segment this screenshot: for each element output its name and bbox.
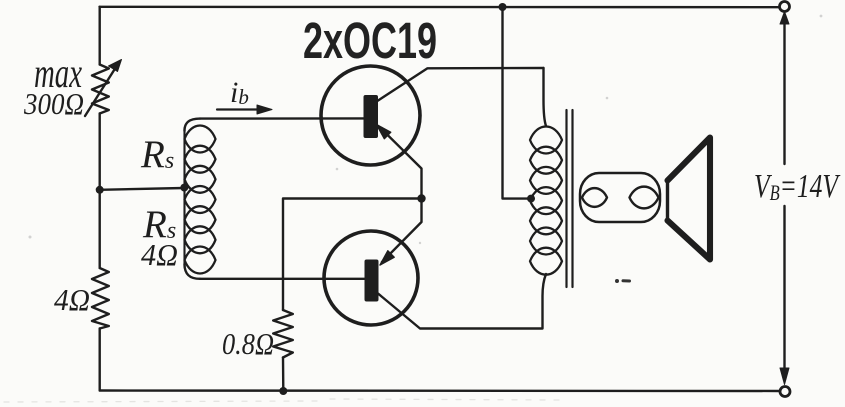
transistor Q2 base bar bbox=[365, 260, 379, 302]
svg-text:4Ω: 4Ω bbox=[141, 237, 178, 272]
faint scan speckle bottom edge bbox=[4, 399, 560, 402]
transformer primary coil: loops bbox=[530, 127, 562, 275]
wire: base of Q2 bbox=[200, 278, 365, 280]
resistor max 300 ohm (variable, zigzag) bbox=[92, 65, 109, 114]
inductor Rs / Rs driver coil: spine bbox=[183, 128, 185, 267]
junction node: left rail / centre-tap bbox=[96, 186, 104, 194]
transformer secondary: inner loop 2 bbox=[630, 187, 659, 209]
ink speck dot bbox=[615, 279, 619, 283]
transistor Q2 (OC19) circle bbox=[324, 231, 418, 325]
resistor 0.8 ohm bbox=[273, 310, 293, 358]
wire: left rail middle segment bbox=[98, 114, 100, 269]
wire: base of Q1 bbox=[200, 117, 364, 120]
svg-text:VB=14V: VB=14V bbox=[754, 168, 841, 205]
arrow ib bbox=[217, 108, 260, 110]
transistor Q1 collector lead bbox=[375, 68, 544, 103]
wire: transformer primary top entry bbox=[544, 68, 547, 126]
wire: centre tap to left rail bbox=[100, 188, 184, 190]
speaker LS: throat edge bbox=[666, 181, 669, 221]
terminal: supply negative (bottom right) bbox=[780, 387, 790, 397]
wire: top supply rail bbox=[100, 6, 780, 9]
resistor 4 ohm (left rail zigzag) bbox=[92, 268, 109, 329]
wire: coil bottom exit curve to base wire bbox=[185, 264, 201, 279]
transistor Q1 emitter arrow (PNP, pointing into bar) bbox=[377, 125, 391, 139]
wire: emitter node to 0.8 ohm branch bbox=[283, 199, 422, 311]
transistor Q2 emitter arrow (PNP, pointing into bar) bbox=[380, 251, 394, 265]
transistor Q2 emitter lead bbox=[382, 199, 422, 263]
transistor Q1 emitter lead bbox=[380, 128, 422, 199]
transformer core bbox=[565, 110, 567, 287]
junction node: emitters bbox=[417, 194, 425, 202]
svg-text:4Ω: 4Ω bbox=[54, 282, 90, 317]
inductor Rs / Rs driver coil: loops bbox=[185, 126, 216, 274]
arrow of variable resistor bbox=[85, 66, 117, 117]
svg-text:Rs: Rs bbox=[140, 133, 174, 176]
wire: transformer primary bottom exit bbox=[543, 274, 547, 329]
speaker LS: horn trapezoid bbox=[668, 138, 711, 260]
wire: bottom rail bbox=[100, 389, 780, 392]
transformer secondary: outer loop bbox=[580, 173, 660, 222]
wire: left rail lower segment bbox=[98, 329, 100, 391]
wire: 0.8 ohm to bottom rail bbox=[282, 358, 285, 392]
wire: VB arrow upper half bbox=[783, 23, 785, 164]
transformer secondary: inner loop 1 bbox=[582, 188, 607, 207]
terminal: supply positive (top right) bbox=[780, 2, 790, 12]
svg-text:2xOC19: 2xOC19 bbox=[303, 12, 437, 69]
svg-text:300Ω: 300Ω bbox=[23, 86, 84, 121]
junction node: top rail tap bbox=[499, 3, 507, 11]
wire: primary centre tap bbox=[503, 7, 532, 199]
transistor Q1 (OC19) circle bbox=[321, 66, 420, 165]
ink speck dash bbox=[623, 279, 630, 282]
transistor Q1 base bar bbox=[364, 95, 379, 138]
wire: VB arrow lower half bbox=[783, 206, 785, 369]
wire: coil top entry curve to base wire bbox=[185, 119, 201, 131]
transistor Q2 collector lead bbox=[378, 294, 542, 329]
svg-text:0.8Ω: 0.8Ω bbox=[222, 326, 274, 361]
junction node: primary centre tap bbox=[527, 195, 535, 203]
svg-text:ib: ib bbox=[230, 76, 249, 109]
junction node: bottom rail bbox=[279, 387, 287, 395]
wire: left rail upper segment bbox=[98, 7, 100, 65]
junction node: coil centre tap bbox=[180, 184, 188, 192]
